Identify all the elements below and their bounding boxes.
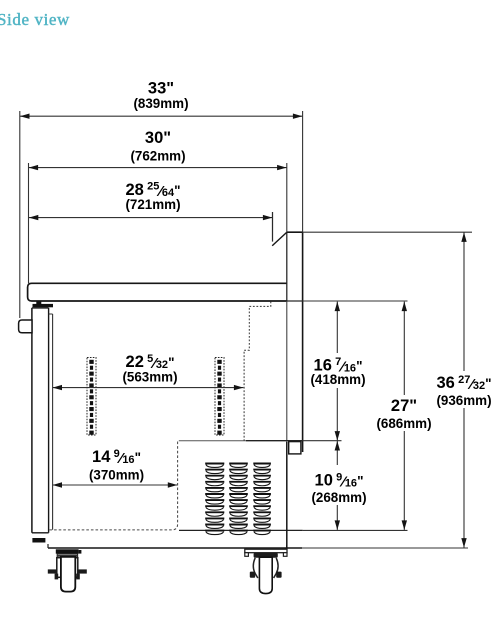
svg-text:(936mm): (936mm): [436, 393, 491, 408]
svg-text:(563mm): (563mm): [122, 370, 177, 385]
svg-text:(721mm): (721mm): [125, 197, 180, 212]
svg-text:(762mm): (762mm): [130, 148, 185, 163]
svg-text:(268mm): (268mm): [311, 490, 366, 505]
svg-text:27": 27": [391, 397, 417, 415]
svg-text:30": 30": [145, 129, 171, 147]
svg-text:33": 33": [148, 79, 174, 97]
svg-text:(686mm): (686mm): [376, 416, 431, 431]
svg-text:(418mm): (418mm): [310, 372, 365, 387]
svg-text:(839mm): (839mm): [133, 96, 188, 111]
svg-text:(370mm): (370mm): [89, 468, 144, 483]
